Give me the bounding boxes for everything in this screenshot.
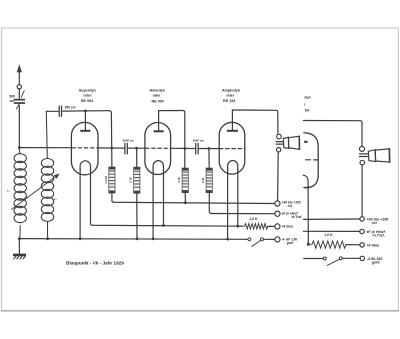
switch left bbox=[248, 238, 251, 241]
node anode1 junction bbox=[110, 147, 113, 150]
svg-text:1,4 M: 1,4 M bbox=[104, 176, 108, 184]
ground bbox=[18, 239, 20, 254]
wire cap to tube2 bbox=[128, 147, 145, 149]
terminal L2 bbox=[275, 211, 280, 216]
coil L1 bbox=[14, 148, 26, 239]
bus R1 bbox=[304, 218, 360, 220]
bus1 +90V bbox=[114, 202, 275, 203]
svg-text:250 cm: 250 cm bbox=[64, 105, 76, 109]
svg-text:m.Traf.: m.Traf. bbox=[292, 215, 303, 219]
svg-text:gelb: gelb bbox=[371, 261, 380, 265]
resistor Ra1 bbox=[109, 167, 115, 193]
tube V4 fragment bbox=[304, 133, 318, 188]
terminal R3 bbox=[360, 243, 364, 247]
svg-text:oder: oder bbox=[83, 94, 92, 98]
resistor 1,8 ohm left bbox=[240, 224, 268, 229]
svg-text:RE 054: RE 054 bbox=[81, 99, 94, 103]
wire grid line to tube1 bbox=[19, 147, 71, 149]
wire horn right to R1 bbox=[361, 165, 363, 217]
V4 anode dash bbox=[304, 141, 307, 143]
tube V2 bbox=[145, 123, 171, 175]
V2 anode bar bbox=[158, 111, 160, 131]
svg-text:+4 blau: +4 blau bbox=[366, 243, 380, 247]
svg-text:500: 500 bbox=[9, 95, 15, 99]
switch right wire bbox=[304, 258, 324, 260]
svg-text:5000 cm: 5000 cm bbox=[123, 139, 135, 143]
coupling arrow bbox=[12, 175, 58, 209]
svg-text:m.Traf.: m.Traf. bbox=[373, 234, 385, 238]
tube V1 bbox=[71, 122, 98, 174]
resistor Rg3 bbox=[206, 168, 212, 193]
resistor Rg2 bbox=[136, 148, 138, 167]
V2 anode wire bbox=[159, 111, 185, 169]
terminal R2 bbox=[360, 229, 364, 233]
V2 filament bbox=[153, 161, 163, 171]
wire Rg2 to bus4 bbox=[136, 193, 138, 239]
node grid1 top bbox=[84, 110, 87, 113]
svg-text:+4 blau: +4 blau bbox=[282, 224, 293, 228]
wire anode1 vertical bbox=[110, 113, 113, 167]
wire antenna down bbox=[18, 105, 20, 147]
svg-text:Superdyn: Superdyn bbox=[79, 89, 97, 93]
terminal R4 bbox=[360, 256, 364, 260]
wire Rg3 to bus2 bbox=[209, 193, 211, 214]
wire cap2 to tube3 bbox=[199, 148, 219, 150]
terminal L3 bbox=[275, 224, 280, 229]
coil L2 bbox=[41, 111, 53, 238]
wire tube1 to cap bbox=[98, 147, 125, 149]
V4 grid dashes bbox=[306, 159, 311, 161]
node bus R3 bbox=[307, 243, 310, 246]
svg-text:oder: oder bbox=[153, 94, 162, 98]
horn speaker left bbox=[277, 134, 282, 139]
grid dashes tube3 bbox=[220, 148, 245, 150]
V1 filament bbox=[80, 161, 90, 171]
resistor Ra2 bbox=[182, 168, 188, 193]
wire horn to L1 terminal bbox=[277, 152, 280, 201]
horn speaker right bbox=[360, 146, 365, 151]
node antenna/grid bbox=[18, 146, 21, 149]
svg-text:oder: oder bbox=[226, 94, 235, 98]
page frame bottom shadow bbox=[2, 310, 399, 312]
svg-text:dyn: dyn bbox=[304, 96, 311, 100]
antenna arrow bbox=[18, 71, 20, 85]
wire Rg3 top bbox=[208, 149, 210, 169]
V3 anode bar bbox=[231, 110, 233, 130]
capacitor 5000cm stage1 bbox=[124, 143, 125, 155]
terminal L1 bbox=[275, 201, 280, 206]
terminal R1 bbox=[360, 217, 364, 221]
bus3 +4V bbox=[93, 224, 242, 227]
grid dashes tube2 bbox=[146, 147, 171, 149]
svg-text:rot: rot bbox=[372, 221, 378, 225]
svg-text:Blaupunkt - VII - Jahr 1929: Blaupunkt - VII - Jahr 1929 bbox=[66, 260, 124, 266]
capacitor 250cm feedback bbox=[46, 110, 59, 112]
variable capacitor C-ant 500cm bbox=[14, 99, 25, 101]
svg-text:cm: cm bbox=[10, 99, 15, 103]
svg-text:2 M: 2 M bbox=[177, 177, 181, 183]
grid dashes tube1 bbox=[72, 147, 98, 149]
node grid2 leak bbox=[135, 147, 138, 150]
antenna circle bbox=[17, 85, 21, 89]
svg-text:RE 054: RE 054 bbox=[151, 99, 164, 103]
svg-text:2 M: 2 M bbox=[129, 177, 133, 183]
svg-text:1,8 Ω: 1,8 Ω bbox=[250, 217, 258, 221]
svg-text:Hekodyn: Hekodyn bbox=[150, 88, 166, 92]
svg-text:5000 cm: 5000 cm bbox=[193, 139, 205, 143]
V3 anode wire to horn bbox=[232, 110, 278, 134]
node grid3 leak bbox=[208, 147, 211, 150]
svg-text:gelb: gelb bbox=[286, 241, 294, 245]
svg-text:+90 bis +150: +90 bis +150 bbox=[366, 218, 389, 222]
switch right bbox=[323, 257, 326, 260]
wire Ra2 to bus1 bbox=[184, 193, 186, 203]
wire cap250 to corner bbox=[63, 110, 109, 112]
V3 filament bbox=[228, 160, 238, 171]
bus4 -4V bbox=[19, 238, 248, 241]
wire tube2 to cap2 bbox=[170, 147, 195, 149]
wire V4 anode to horn right bbox=[303, 121, 362, 147]
terminal L4 bbox=[275, 237, 280, 242]
V1 anode bar bbox=[84, 111, 86, 130]
svg-text:RE 154: RE 154 bbox=[223, 99, 236, 103]
bus2 +F bbox=[211, 213, 274, 215]
bus R2 bbox=[304, 230, 360, 232]
capacitor 5000cm stage2 bbox=[195, 143, 196, 155]
tube V3 bbox=[219, 122, 245, 174]
wire Ra1 to bus1 bbox=[112, 193, 114, 202]
resistor 1,8 ohm right bbox=[308, 241, 346, 248]
svg-text:1,8 Ω: 1,8 Ω bbox=[325, 233, 333, 237]
V4 filament crook to bus bbox=[303, 175, 308, 244]
svg-text:Amplodyn: Amplodyn bbox=[222, 89, 241, 93]
svg-text:2 M: 2 M bbox=[201, 178, 205, 184]
svg-text:L₁: L₁ bbox=[7, 189, 10, 193]
wire bbox=[18, 89, 20, 99]
node anode2 junction bbox=[184, 147, 187, 150]
